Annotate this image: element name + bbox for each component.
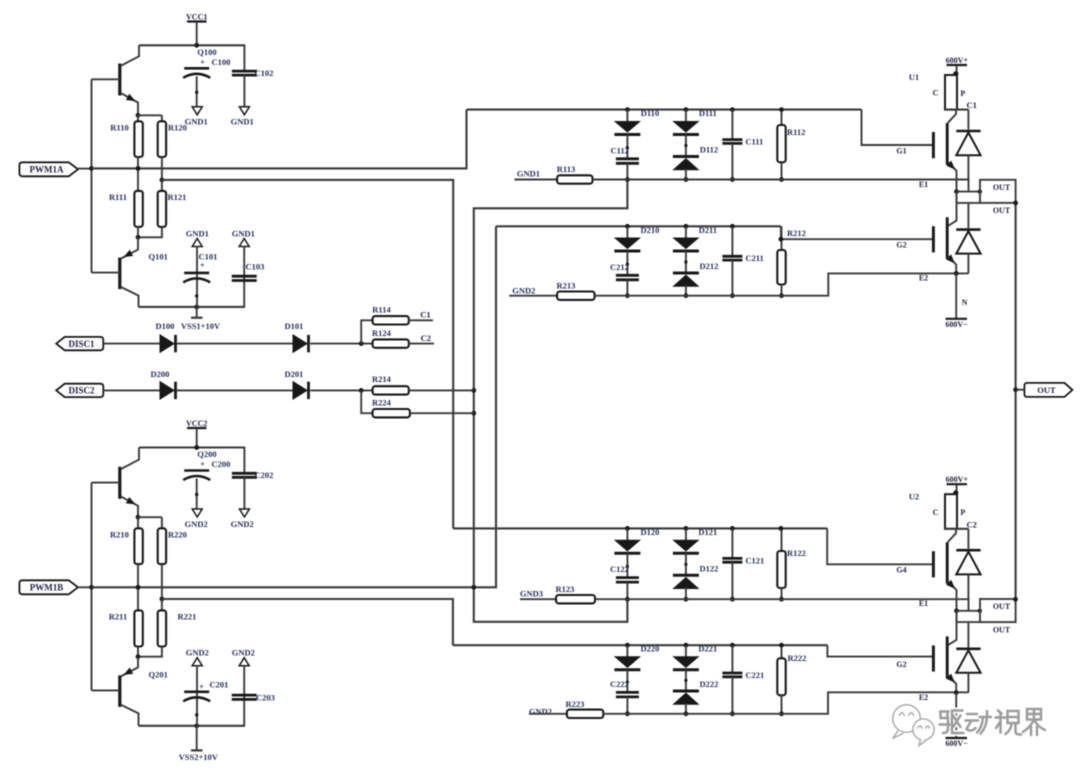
wire to R121	[161, 180, 163, 191]
svg-text:U1: U1	[909, 72, 919, 82]
IGBT U1 lower collector	[948, 192, 957, 226]
diode D101	[293, 335, 307, 352]
power 600V- (U1)	[955, 273, 957, 318]
diode D112	[673, 155, 699, 158]
wire net4 bottom rail (E4)	[603, 692, 968, 714]
diode D110	[626, 110, 628, 122]
resistor R210	[134, 528, 142, 564]
svg-text:C100: C100	[212, 57, 231, 67]
port PWM1A	[19, 162, 78, 176]
port PWM1B	[19, 580, 78, 594]
link C-P U2	[945, 494, 957, 529]
svg-text:R110: R110	[110, 122, 128, 132]
transistor Q101	[118, 258, 121, 290]
capacitor C102	[243, 45, 245, 71]
resistor R211	[134, 610, 142, 646]
diode D220	[626, 645, 628, 657]
svg-text:VCC1: VCC1	[186, 13, 207, 22]
node OUT bottom	[1013, 597, 1018, 602]
resistor R221	[158, 610, 166, 646]
svg-text:D221: D221	[698, 644, 717, 654]
watermark text 驱动视界	[940, 709, 1046, 735]
wire net1 bottom rail (E1)	[593, 180, 969, 192]
wire R221 out	[138, 647, 162, 657]
wire R211 out	[137, 647, 139, 657]
wire VSS2 rail	[139, 725, 246, 727]
svg-text:D120: D120	[640, 527, 659, 537]
diode U1 upper freewheel	[967, 110, 969, 130]
svg-text:VSS1+10V: VSS1+10V	[181, 321, 221, 331]
ground GND2 (C200)	[192, 509, 202, 517]
capacitor C203	[232, 694, 257, 697]
svg-text:C221: C221	[745, 670, 764, 680]
wire R210 out	[137, 564, 139, 587]
node R114/R124	[359, 341, 364, 346]
svg-text:P: P	[960, 508, 965, 517]
port OUT flag U2	[980, 599, 1016, 622]
svg-text:G2: G2	[896, 241, 906, 250]
wire R121 out	[138, 227, 162, 237]
IGBT U1 lower	[932, 226, 935, 252]
svg-text:R213: R213	[557, 281, 576, 291]
resistor R120	[158, 121, 166, 157]
wire vertical B (E-ref link)	[474, 180, 628, 622]
wire to R110	[137, 115, 139, 121]
svg-text:C103: C103	[246, 262, 265, 272]
svg-text:VCC2: VCC2	[186, 419, 207, 428]
svg-text:D100: D100	[156, 321, 175, 331]
node R112 top	[779, 107, 784, 112]
resistor R124	[373, 339, 409, 347]
svg-text:R123: R123	[556, 584, 575, 594]
wire U2 collector node	[945, 528, 969, 530]
wire GND3 stub	[520, 598, 556, 600]
svg-text:600V−: 600V−	[945, 320, 968, 329]
svg-text:C: C	[933, 508, 939, 517]
svg-text:GND2: GND2	[529, 707, 552, 717]
wire U1 mid lower	[957, 202, 981, 204]
svg-text:Q100: Q100	[197, 47, 216, 57]
diode U2 lower freewheel	[967, 622, 969, 647]
svg-text:C203: C203	[256, 692, 275, 702]
wire to R221	[161, 599, 163, 610]
diode U1 lower freewheel	[967, 203, 969, 228]
wire R220 out	[161, 564, 163, 599]
svg-text:600V−: 600V−	[945, 739, 968, 748]
capacitor C202	[243, 448, 245, 474]
capacitor C112	[616, 157, 639, 160]
net VSS2	[196, 726, 198, 751]
svg-text:PWM1B: PWM1B	[30, 583, 64, 593]
wire net2 gate rail	[496, 225, 781, 227]
svg-text:R224: R224	[372, 397, 392, 407]
capacitor C111	[731, 110, 733, 140]
resistor R212	[781, 226, 783, 250]
wire gate G2 feed	[781, 226, 932, 239]
wire VCC1 rail	[139, 44, 245, 46]
wire U2 mid lower	[957, 621, 981, 623]
svg-text:C121: C121	[745, 555, 764, 565]
transistor Q201	[118, 675, 121, 707]
svg-text:R221: R221	[178, 611, 197, 621]
svg-text:D122: D122	[699, 563, 718, 573]
svg-text:GND1: GND1	[185, 117, 208, 127]
svg-text:+: +	[200, 58, 205, 67]
wire R124 to C2	[409, 343, 434, 345]
wire drive A1 to net1 rail	[92, 110, 467, 169]
wire DISC2	[103, 389, 160, 391]
resistor R220	[158, 528, 166, 564]
node Q201 emitter	[136, 654, 141, 659]
svg-text:GND2: GND2	[231, 519, 254, 529]
svg-text:OUT: OUT	[993, 206, 1011, 215]
wire drive B1 up (vertical C)	[92, 226, 497, 587]
svg-text:DISC1: DISC1	[68, 339, 95, 349]
svg-text:600V+: 600V+	[946, 475, 969, 484]
svg-text:R214: R214	[372, 374, 392, 384]
svg-text:D121: D121	[698, 527, 717, 537]
wire R110 out	[137, 157, 139, 168]
port OUT	[1024, 383, 1072, 397]
svg-text:C211: C211	[745, 253, 763, 263]
svg-text:E2: E2	[919, 693, 928, 702]
svg-text:R212: R212	[787, 228, 806, 238]
node R122 top	[779, 526, 784, 531]
node Q100 emitter	[136, 113, 141, 118]
svg-text:C2: C2	[421, 333, 431, 343]
svg-text:R114: R114	[372, 305, 391, 315]
wire base bus	[91, 79, 93, 272]
net VSS1	[196, 307, 198, 318]
node U2 P	[953, 490, 958, 495]
diode D212	[673, 272, 699, 275]
svg-text:OUT: OUT	[993, 183, 1011, 192]
svg-text:C122: C122	[610, 564, 629, 574]
node B-driveB1	[471, 585, 476, 590]
capacitor C121	[731, 528, 733, 558]
svg-text:Q201: Q201	[149, 669, 168, 679]
ground GND2 (C202)	[239, 509, 249, 517]
wire drive B2 down to net4 rail	[162, 599, 453, 645]
svg-text:D222: D222	[699, 679, 718, 689]
resistor R121	[158, 191, 166, 227]
wire base bus	[91, 483, 93, 691]
diode D120	[626, 528, 628, 540]
svg-text:C201: C201	[210, 680, 229, 690]
diode D122	[673, 574, 699, 577]
svg-text:GND2: GND2	[232, 648, 255, 658]
svg-text:G1: G1	[896, 146, 906, 155]
resistor R213	[557, 292, 595, 300]
wire net3 gate rail	[453, 527, 827, 529]
node U1 mid	[954, 189, 959, 194]
svg-text:VSS2+10V: VSS2+10V	[179, 752, 219, 762]
svg-text:OUT: OUT	[1037, 385, 1056, 395]
wire to R210	[137, 517, 139, 528]
resistor R114	[373, 316, 409, 324]
wire R214 out	[409, 389, 474, 391]
diode D111	[685, 110, 687, 122]
resistor R111	[134, 191, 142, 227]
wire gate G3 feed	[827, 528, 932, 564]
svg-text:D211: D211	[699, 225, 717, 235]
node R214/R224	[359, 388, 364, 393]
svg-text:D201: D201	[285, 369, 304, 379]
svg-text:R112: R112	[787, 127, 805, 137]
svg-text:P: P	[960, 89, 965, 98]
svg-text:+: +	[199, 682, 204, 691]
svg-text:G2: G2	[896, 660, 906, 669]
node U1 P	[953, 71, 958, 76]
svg-text:OUT: OUT	[993, 625, 1011, 634]
node Q200 emitter	[136, 515, 141, 520]
svg-text:C101: C101	[199, 252, 218, 262]
resistor R112	[781, 110, 783, 125]
wire net4 gate rail	[453, 644, 828, 646]
svg-text:GND1: GND1	[232, 228, 255, 238]
svg-text:C112: C112	[610, 145, 628, 155]
resistor R223	[567, 710, 603, 718]
resistor R113	[557, 175, 592, 183]
node Q101 emitter	[136, 235, 141, 240]
node PWM1A junction	[89, 166, 94, 171]
wire U1 collector node	[945, 109, 969, 111]
svg-text:OUT: OUT	[993, 602, 1011, 611]
diode D221	[685, 645, 687, 657]
svg-text:D212: D212	[699, 261, 718, 271]
svg-text:N: N	[962, 298, 968, 307]
svg-text:GND1: GND1	[186, 228, 209, 238]
svg-text:PWM1A: PWM1A	[30, 165, 64, 175]
resistor R122	[781, 528, 783, 551]
wire D100-D101	[177, 343, 293, 345]
IGBT U1 upper emitter	[948, 162, 957, 203]
node drive1 B	[160, 178, 165, 183]
transistor Q200	[118, 467, 121, 499]
node R212 top	[779, 237, 784, 242]
wire gate G1 feed	[862, 110, 933, 145]
wire to R111	[137, 168, 139, 191]
transistor Q100	[118, 64, 121, 96]
wire to R211	[137, 587, 139, 610]
svg-text:C212: C212	[610, 262, 629, 272]
diode D100	[160, 335, 174, 352]
svg-text:D200: D200	[151, 369, 170, 379]
svg-text:C1: C1	[420, 310, 430, 320]
node drive2 B	[160, 597, 165, 602]
wire gate G4 feed	[827, 645, 932, 656]
node B-R224	[471, 411, 476, 416]
svg-text:R111: R111	[109, 192, 127, 202]
resistor R214	[373, 386, 409, 394]
wire D101 out	[310, 343, 372, 345]
capacitor C221	[731, 645, 733, 673]
svg-text:600V+: 600V+	[946, 56, 969, 65]
svg-text:D112: D112	[700, 145, 718, 155]
port DISC2	[56, 384, 103, 397]
svg-text:C: C	[933, 89, 939, 98]
svg-text:R122: R122	[787, 548, 806, 558]
svg-text:Q200: Q200	[197, 449, 216, 459]
node PWM1B junction	[89, 585, 94, 590]
svg-text:GND2: GND2	[186, 648, 209, 658]
svg-text:R223: R223	[566, 699, 585, 709]
svg-text:C200: C200	[212, 459, 231, 469]
wire net3 bottom rail (E3)	[595, 599, 969, 611]
node U2 mid	[954, 608, 959, 613]
svg-text:R124: R124	[372, 328, 392, 338]
wire VSS1 rail	[139, 306, 246, 308]
svg-text:Q101: Q101	[149, 252, 168, 262]
wire D200-D201	[177, 389, 293, 391]
node B-R214	[471, 388, 476, 393]
svg-text:C202: C202	[255, 470, 274, 480]
resistor R224	[373, 409, 410, 417]
wire VCC2 rail	[139, 446, 245, 448]
IGBT U2 lower	[932, 645, 935, 671]
wire GND2 stub	[509, 295, 557, 297]
watermark wechat icon	[893, 705, 935, 746]
svg-text:D111: D111	[699, 108, 717, 118]
svg-text:D101: D101	[285, 321, 304, 331]
node OUT port tap	[1013, 387, 1018, 392]
port DISC1	[56, 337, 103, 350]
diode D222	[673, 690, 699, 693]
node drive1 A	[136, 166, 141, 171]
svg-text:E1: E1	[919, 180, 928, 189]
port OUT flag U1	[980, 180, 1016, 203]
svg-text:D220: D220	[640, 644, 659, 654]
svg-text:R211: R211	[109, 611, 127, 621]
svg-text:R113: R113	[557, 164, 575, 174]
resistor R123	[556, 595, 595, 603]
wire GND1 stub	[515, 179, 558, 181]
IGBT U1 upper	[932, 132, 935, 158]
svg-text:GND3: GND3	[520, 589, 543, 599]
wire R120 out	[161, 157, 163, 180]
svg-text:R121: R121	[168, 192, 187, 202]
diode D201	[293, 382, 307, 399]
wire to R224	[361, 390, 372, 413]
capacitor C122	[616, 576, 639, 579]
wire net1 gate rail	[467, 109, 862, 111]
wire net2 bottom rail (E2)	[595, 273, 969, 295]
IGBT U2 lower collector	[948, 611, 957, 645]
svg-text:D110: D110	[641, 108, 659, 118]
diode D200	[160, 382, 174, 399]
IGBT U2 lower emitter	[948, 675, 956, 692]
diode D121	[685, 528, 687, 540]
wire GND4 stub	[529, 713, 567, 715]
IGBT U2 upper	[932, 551, 935, 577]
svg-text:C111: C111	[745, 137, 763, 147]
wire R114 to C1	[409, 319, 433, 321]
resistor R110	[134, 121, 142, 157]
diode D211	[685, 226, 687, 238]
svg-text:C102: C102	[255, 68, 274, 78]
svg-text:G4: G4	[896, 566, 906, 575]
wire to R114	[361, 320, 372, 343]
svg-text:GND2: GND2	[185, 519, 208, 529]
capacitor C103	[232, 275, 257, 278]
svg-text:R220: R220	[168, 529, 187, 539]
svg-text:R222: R222	[788, 653, 807, 663]
svg-text:E1: E1	[919, 599, 928, 608]
capacitor C212	[616, 274, 639, 277]
wire R111 out	[137, 227, 139, 237]
wire to R220	[161, 517, 163, 528]
svg-text:GND1: GND1	[517, 169, 540, 179]
svg-text:DISC2: DISC2	[68, 386, 95, 396]
resistor R222	[781, 645, 783, 658]
node R222 top	[779, 643, 784, 648]
svg-text:D210: D210	[640, 225, 659, 235]
wire R224 out	[410, 412, 474, 414]
svg-text:+: +	[200, 460, 205, 469]
ground GND1 (C100)	[192, 107, 202, 115]
IGBT U1 lower emitter	[948, 256, 956, 273]
wire PWM1A	[78, 168, 92, 170]
wire drive A2 down (vertical A)	[162, 180, 453, 529]
wire DISC1	[103, 343, 160, 345]
diode D210	[626, 226, 628, 238]
IGBT U2 upper emitter	[948, 581, 957, 622]
svg-text:C222: C222	[610, 679, 629, 689]
svg-text:GND2: GND2	[512, 285, 535, 295]
wire D201 out	[310, 389, 372, 391]
capacitor C222	[616, 691, 639, 694]
wire PWM1B	[78, 586, 92, 588]
svg-text:E2: E2	[919, 274, 928, 283]
svg-text:U2: U2	[909, 491, 919, 501]
node OUT top	[1013, 201, 1018, 206]
link C-P U1	[945, 75, 957, 110]
svg-text:R210: R210	[110, 529, 129, 539]
ground GND1 (C102)	[239, 107, 249, 115]
node drive2 A	[136, 585, 141, 590]
wire to R120	[161, 115, 163, 121]
power 600V- (U2)	[955, 693, 957, 738]
diode U2 upper freewheel	[967, 529, 969, 549]
svg-text:+: +	[200, 261, 205, 270]
wire OUT bus	[1015, 203, 1017, 599]
capacitor C211	[731, 226, 733, 256]
svg-text:GND1: GND1	[231, 117, 254, 127]
